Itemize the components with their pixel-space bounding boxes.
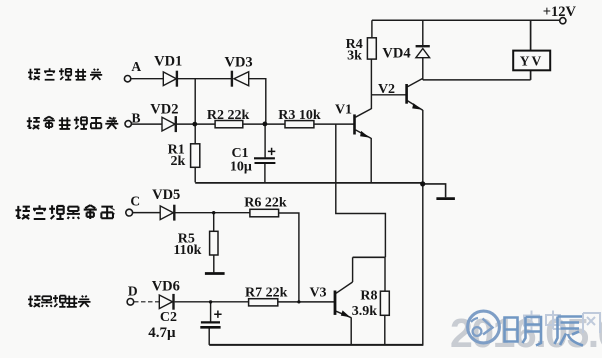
svg-text:4.7μ: 4.7μ <box>148 325 176 341</box>
svg-text:3.9k: 3.9k <box>352 304 378 319</box>
svg-text:+12V: +12V <box>543 4 577 20</box>
svg-text:V2: V2 <box>378 82 395 97</box>
svg-text:3k: 3k <box>347 49 362 64</box>
svg-text:V3: V3 <box>309 285 326 300</box>
svg-text:C: C <box>130 194 140 209</box>
svg-text:R6 22k: R6 22k <box>244 195 287 210</box>
svg-text:C2: C2 <box>160 310 177 325</box>
svg-text:10μ: 10μ <box>230 159 252 174</box>
svg-text:D: D <box>128 284 138 299</box>
svg-text:VD2: VD2 <box>150 102 178 118</box>
svg-text:VD6: VD6 <box>152 279 180 295</box>
svg-text:2k: 2k <box>171 154 186 169</box>
svg-text:R7 22k: R7 22k <box>245 286 288 301</box>
svg-text:R2 22k: R2 22k <box>207 108 250 123</box>
svg-text:B: B <box>131 110 140 125</box>
svg-text:V1: V1 <box>335 102 352 117</box>
svg-text:R3 10k: R3 10k <box>278 108 321 123</box>
svg-text:VD3: VD3 <box>224 55 252 71</box>
svg-text:VD4: VD4 <box>382 45 410 61</box>
svg-text:YV: YV <box>520 53 544 68</box>
svg-text:R8: R8 <box>360 288 377 303</box>
svg-text:VD1: VD1 <box>154 53 182 69</box>
svg-text:A: A <box>131 59 141 74</box>
svg-text:VD5: VD5 <box>152 187 180 203</box>
svg-text:110k: 110k <box>173 243 201 258</box>
